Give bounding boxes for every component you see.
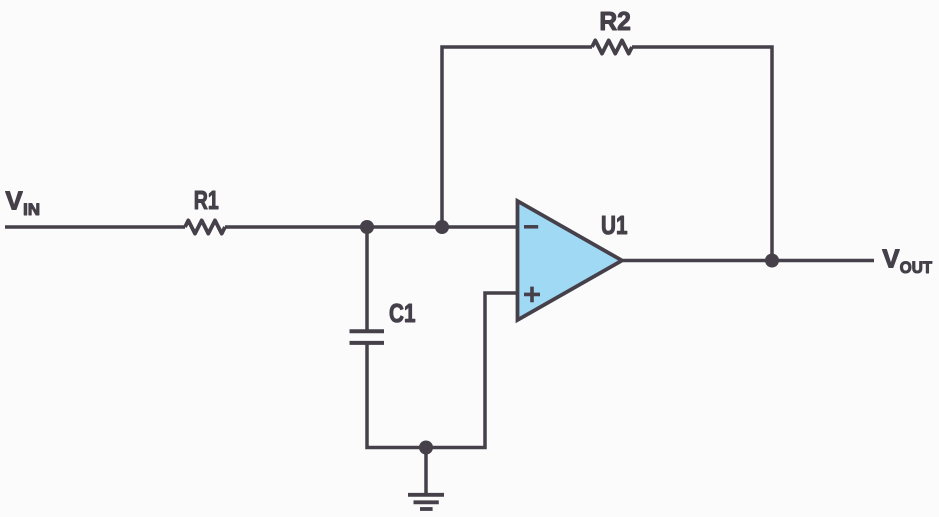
svg-text:U1: U1 (601, 210, 628, 240)
resistor R1 (185, 220, 225, 233)
svg-text:V: V (882, 244, 900, 274)
wire: Vin input to R1 (5, 225, 185, 229)
node: junction dot output/feedback (765, 254, 779, 268)
wire: ground stub (424, 448, 428, 494)
op-amp U1 (518, 201, 623, 320)
wire: op-amp output to Vout (623, 259, 874, 263)
ground bar 1 (408, 493, 444, 497)
capacitor C1 top plate (350, 329, 385, 333)
op-amp plus pin symbol (524, 287, 540, 303)
node: junction dot ground rail (419, 441, 433, 455)
svg-text:IN: IN (23, 201, 40, 219)
wire: C1 branch down from input node (365, 227, 369, 330)
node: junction dot input/C1 (360, 220, 374, 234)
ground bar 3 (420, 507, 433, 511)
svg-text:C1: C1 (389, 298, 416, 328)
wire: R1 to op-amp inverting input (225, 225, 518, 229)
wire: feedback top right segment and down to output (632, 47, 772, 261)
wire: feedback vertical from inverting node up and over to R2 (442, 47, 592, 227)
ground bar 2 (414, 500, 439, 504)
node: junction dot feedback tap (435, 220, 449, 234)
resistor R2 (592, 40, 632, 53)
capacitor C1 bottom plate (350, 341, 385, 345)
wire: C1 bottom to ground rail, across and up to non-inverting input (367, 293, 518, 448)
svg-text:V: V (5, 185, 23, 215)
svg-text:R1: R1 (194, 185, 219, 215)
op-amp minus pin symbol (524, 225, 538, 229)
svg-text:R2: R2 (599, 6, 631, 36)
svg-text:OUT: OUT (900, 259, 932, 277)
